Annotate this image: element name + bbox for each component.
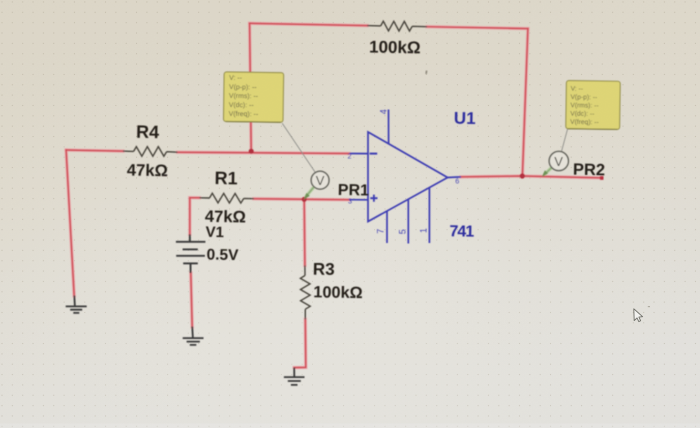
bottom screen edge strip bbox=[0, 424, 700, 428]
wire: top feedback loop right segment bbox=[427, 27, 528, 29]
battery V1 bbox=[176, 234, 206, 273]
leader line right probe box bbox=[561, 129, 568, 153]
mouse cursor bbox=[634, 309, 643, 322]
ground (V1) bbox=[183, 327, 204, 345]
wire: R1 to node A and pin3 bbox=[254, 199, 349, 200]
wire: op-amp output run bbox=[461, 176, 602, 178]
wire halo strokes bbox=[66, 23, 602, 367]
leader line left probe box bbox=[282, 123, 316, 174]
wire: R4 input run left bbox=[66, 150, 123, 151]
speck near cursor bbox=[648, 306, 650, 307]
ground (left) bbox=[66, 296, 87, 313]
wire: left vertical drop to ground bbox=[66, 150, 74, 296]
op-amp pin 6 lead bbox=[448, 176, 461, 179]
probe tooltip box left bbox=[223, 72, 283, 122]
wire: V1 bottom to ground bbox=[191, 273, 192, 327]
op-amp pin 5 lead bbox=[407, 200, 409, 244]
wire: top feedback loop left segment bbox=[66, 23, 602, 367]
wire: feedback left vertical bbox=[250, 23, 252, 151]
wire core strokes bbox=[66, 23, 602, 367]
wire: feedback right vertical bbox=[522, 29, 528, 176]
wire: V1 drop bbox=[189, 198, 191, 235]
probe PR2 arrow bbox=[544, 167, 552, 175]
op-amp pin 3 lead bbox=[350, 199, 369, 201]
op-amp pin 2 lead bbox=[350, 153, 369, 155]
wire: node A down to R3 bbox=[303, 199, 306, 265]
op-amp minus sign bbox=[370, 153, 378, 155]
op-amp pin 4 lead bbox=[388, 110, 390, 144]
op-amp pin 7 lead bbox=[386, 211, 388, 243]
node: output junction bbox=[520, 173, 525, 178]
resistor R1 bbox=[200, 193, 254, 203]
node: junction feedback/pin2 bbox=[249, 149, 254, 154]
op-amp plus sign bbox=[370, 195, 377, 202]
resistor R2 100k top bbox=[367, 21, 427, 31]
probe PR1 circle bbox=[311, 171, 329, 189]
wire: R3 bottom to ground bbox=[294, 319, 306, 367]
stray mark bbox=[425, 70, 427, 74]
resistor R3 vertical bbox=[300, 266, 310, 320]
resistor R4 bbox=[123, 147, 178, 157]
probe PR1 arrow bbox=[306, 187, 314, 197]
op-amp pin 1 lead bbox=[428, 188, 430, 243]
op-amp U1 triangle bbox=[350, 110, 462, 244]
ground (R3) bbox=[284, 368, 305, 385]
probe PR2 circle bbox=[549, 151, 568, 170]
node A: junction R1/R3/pin3 bbox=[302, 197, 307, 202]
wire: R4 to op-amp pin2 bbox=[178, 152, 350, 153]
probe tooltip box right bbox=[566, 81, 620, 130]
wire: V1 top to R1 bbox=[190, 197, 200, 199]
node: output endpoint bbox=[600, 176, 604, 180]
